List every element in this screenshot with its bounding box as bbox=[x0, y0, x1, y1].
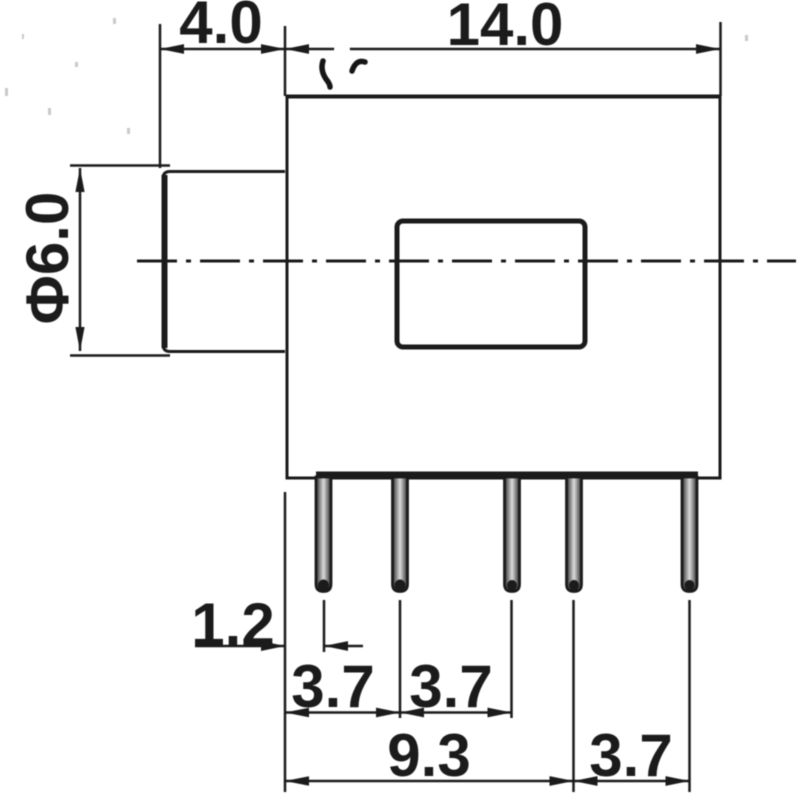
svg-text:4.0: 4.0 bbox=[179, 0, 262, 56]
svg-text:3.7: 3.7 bbox=[409, 653, 492, 720]
svg-text:3.7: 3.7 bbox=[291, 653, 374, 720]
svg-text:9.3: 9.3 bbox=[387, 722, 470, 789]
svg-text:14.0: 14.0 bbox=[447, 0, 564, 58]
svg-text:3.7: 3.7 bbox=[589, 722, 672, 789]
svg-text:1.2: 1.2 bbox=[191, 591, 274, 658]
svg-text:Φ6.0: Φ6.0 bbox=[14, 192, 81, 325]
